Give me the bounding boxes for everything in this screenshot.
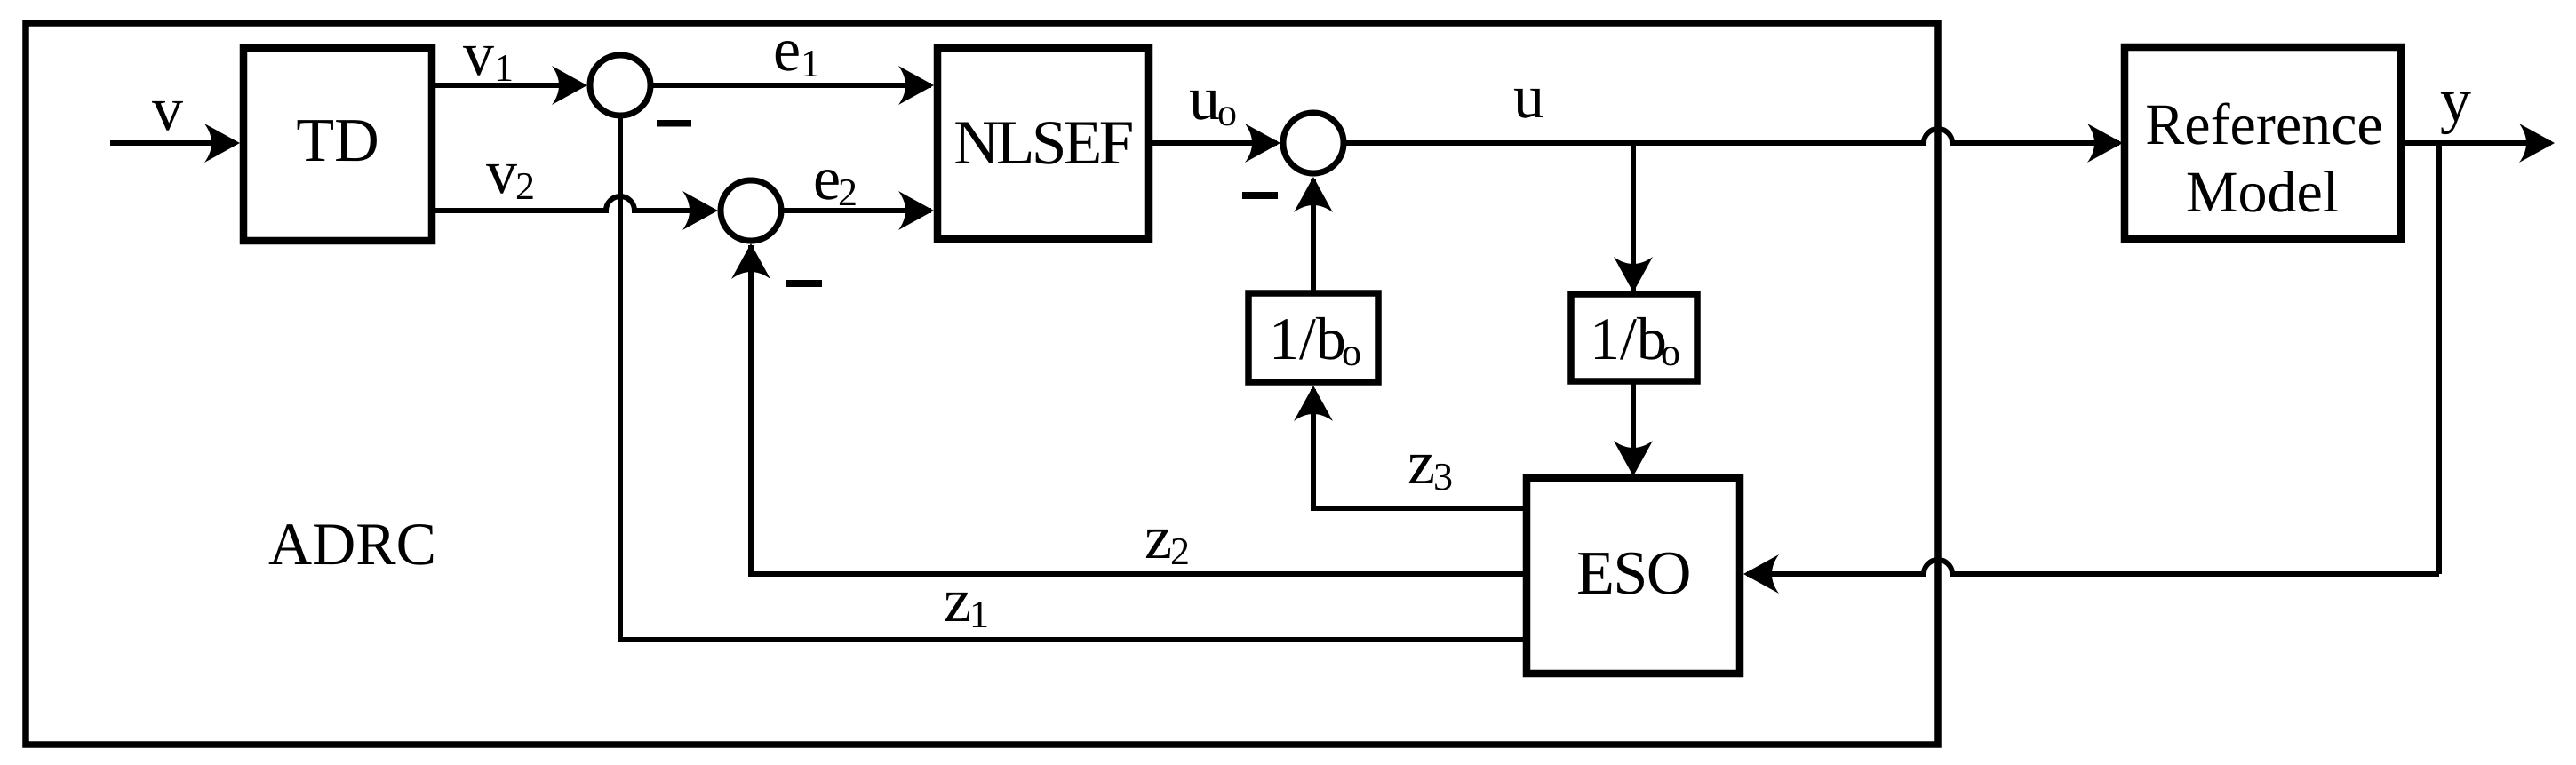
arrowhead feedback into ESO right <box>1743 554 1779 594</box>
NLSEF block <box>937 48 1149 239</box>
wire e2 <box>778 208 931 213</box>
Reference Model block <box>2125 47 2401 239</box>
summing junction S1 <box>590 55 650 116</box>
TD block <box>243 48 432 241</box>
arrowhead v2 into S2 <box>682 191 718 230</box>
svg-text:Reference: Reference <box>2145 92 2382 157</box>
wire 1/bo left up to S3 <box>1311 179 1316 293</box>
svg-text:z: z <box>1408 429 1435 498</box>
svg-text:3: 3 <box>1433 455 1453 498</box>
svg-text:u: u <box>1513 63 1544 131</box>
wire feedback y to ESO with hop over ADRC border <box>1747 143 2439 574</box>
wire z1: down from S1 then to ESO <box>620 116 1527 640</box>
svg-text:z: z <box>944 567 971 635</box>
wire v1 <box>435 83 582 88</box>
arrowhead z3 up into 1/bo left <box>1294 386 1333 421</box>
wire v input <box>110 140 236 146</box>
arrowhead down into ESO top <box>1614 441 1653 476</box>
arrowhead y output <box>2519 124 2555 163</box>
svg-text:e: e <box>813 145 841 213</box>
wire branch u down to 1/bo right <box>1631 143 1636 291</box>
summing junction S3 <box>1283 113 1344 173</box>
minus sign at S1 <box>657 120 691 127</box>
svg-text:v: v <box>463 20 494 89</box>
ESO block <box>1527 478 1740 673</box>
wire uo <box>1149 140 1277 146</box>
svg-text:y: y <box>2440 67 2471 135</box>
svg-text:v: v <box>152 76 183 144</box>
arrowhead u into Reference Model <box>2087 124 2123 163</box>
arrowhead u down into 1/bo right <box>1614 257 1653 292</box>
svg-text:2: 2 <box>838 171 857 214</box>
1/bo block left <box>1248 293 1378 382</box>
svg-text:1: 1 <box>969 593 989 636</box>
ADRC outer box <box>26 23 1938 745</box>
svg-text:o: o <box>1342 331 1361 374</box>
arrowhead v into TD <box>204 124 240 163</box>
summing junction S2 <box>721 180 781 241</box>
svg-text:1/b: 1/b <box>1269 305 1346 372</box>
svg-text:TD: TD <box>296 107 379 175</box>
svg-text:2: 2 <box>515 164 535 208</box>
wire 1/bo right to ESO top <box>1631 381 1636 471</box>
svg-text:1/b: 1/b <box>1590 305 1667 372</box>
wire z3: from ESO left, left and up into 1/bo left <box>1313 389 1527 508</box>
svg-text:ESO: ESO <box>1576 539 1690 608</box>
svg-text:2: 2 <box>1170 530 1190 573</box>
wire u with hop over ADRC border <box>1344 129 2119 143</box>
svg-text:ADRC: ADRC <box>268 510 436 578</box>
svg-text:v: v <box>486 139 517 207</box>
minus sign at S2 <box>786 280 822 287</box>
svg-text:e: e <box>773 16 801 84</box>
arrowhead v1 into S1 <box>552 66 587 105</box>
svg-text:z: z <box>1144 504 1172 572</box>
svg-text:u: u <box>1189 65 1220 133</box>
1/bo block right <box>1571 294 1697 381</box>
arrowhead e2 into NLSEF <box>898 191 934 230</box>
arrowhead z2 up into S2 <box>731 243 770 279</box>
svg-text:o: o <box>1217 91 1237 134</box>
svg-text:NLSEF: NLSEF <box>953 108 1132 178</box>
wire e1 <box>650 83 931 88</box>
minus sign at S3 <box>1242 192 1278 199</box>
svg-text:1: 1 <box>494 46 514 90</box>
wire y output <box>2401 140 2551 146</box>
svg-text:1: 1 <box>801 42 820 85</box>
arrowhead uo into S3 <box>1245 124 1280 163</box>
svg-text:Model: Model <box>2186 160 2339 225</box>
arrowhead up into S3 <box>1294 177 1333 212</box>
wire z2: from ESO left, left and up into S2 <box>751 245 1527 574</box>
svg-text:o: o <box>1661 331 1680 374</box>
wire v2 with hop <box>435 196 714 211</box>
arrowhead e1 into NLSEF <box>898 66 934 105</box>
